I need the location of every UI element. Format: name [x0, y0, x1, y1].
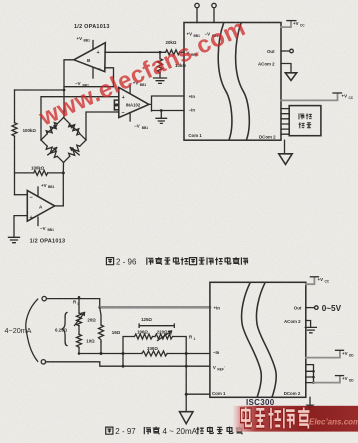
svg-text:100kΩ: 100kΩ	[23, 128, 37, 133]
svg-text:Out: Out	[294, 306, 302, 311]
wire op-amp B + input to 20k	[105, 51, 166, 53]
power +Vcc (top)	[306, 277, 330, 284]
op-amp A +VBB1 supply	[38, 183, 55, 196]
svg-text:+V: +V	[342, 351, 348, 356]
wire op-amp B output to rail	[64, 60, 74, 118]
bridge arm bottom-left	[41, 140, 64, 163]
svg-text:Com 1: Com 1	[188, 133, 202, 138]
wire 20k to VREF pin	[180, 51, 184, 53]
svg-text:6.25Ω: 6.25Ω	[55, 328, 68, 333]
ground (ref wire)	[156, 111, 167, 124]
op-amp B (left-pointing)	[74, 43, 105, 73]
svg-text:4~20mA: 4~20mA	[5, 326, 32, 335]
svg-text:2 - 96: 2 - 96	[116, 258, 137, 267]
resistor 10k (vertical)	[158, 52, 187, 77]
node 125 network right	[185, 352, 188, 355]
svg-text:+V: +V	[342, 94, 348, 99]
power +VDD (lower)	[314, 376, 355, 383]
svg-text:1/2 OPA1013: 1/2 OPA1013	[30, 239, 66, 245]
svg-text:BB1: BB1	[142, 126, 149, 130]
ground DCom 2 (filled)	[309, 397, 311, 404]
resistor 100k (feedback horizontal)	[34, 170, 48, 175]
svg-text:+V: +V	[293, 21, 299, 26]
power +VDD (upper)	[306, 350, 355, 357]
wire op-amp A output	[55, 205, 64, 207]
brace 6.25 ohm	[55, 313, 68, 346]
isolation barrier curve 2	[256, 282, 276, 397]
node 20k/10k junction	[159, 51, 162, 54]
ground (op-amp A +)	[9, 237, 20, 242]
svg-text:ACom 2: ACom 2	[258, 62, 275, 67]
logic control text 控制	[299, 122, 305, 128]
svg-text:100Ω: 100Ω	[137, 330, 148, 335]
node RL top	[98, 306, 101, 309]
svg-text:−V: −V	[134, 124, 140, 129]
terminal -VBB1	[212, 3, 216, 7]
connector pins (right edge)	[306, 365, 315, 384]
svg-text:ISC300: ISC300	[246, 398, 275, 407]
svg-text:+In: +In	[214, 305, 221, 310]
node Com 1	[185, 393, 188, 396]
resistor 330 ohm	[142, 351, 167, 356]
wire INA102 output to +In	[149, 96, 184, 111]
resistor 20 ohm (pot)	[75, 297, 97, 325]
isolation barrier curve 1	[218, 23, 232, 140]
power +Vcc (top right)	[281, 21, 305, 28]
wire top terminal	[46, 299, 99, 306]
ground DCom 2 (open triangle)	[284, 140, 286, 154]
wire op-amp A + input to ground	[14, 216, 27, 237]
svg-text:Elec’ans.com: Elec’ans.com	[309, 418, 358, 427]
resistor 220 ohm (pot)	[155, 330, 173, 341]
ground (10k)	[154, 78, 167, 83]
INA102 -VBB1 supply	[130, 113, 148, 130]
svg-text:DCom 2: DCom 2	[284, 391, 301, 396]
isolation barrier curve 2	[236, 23, 250, 140]
caption figure 2-97	[106, 427, 243, 436]
svg-text:+V: +V	[77, 36, 83, 41]
isolation amplifier IC box	[184, 23, 281, 141]
resistor 100k (left vertical)	[12, 123, 17, 136]
terminal +VBB1	[195, 3, 199, 7]
svg-text:CC: CC	[349, 96, 354, 100]
svg-text:Out: Out	[267, 49, 275, 54]
svg-text:19Ω: 19Ω	[112, 330, 121, 335]
wire thick to +In	[100, 306, 210, 309]
isolation receiver IC box ISC300	[210, 282, 306, 397]
svg-text:+: +	[97, 50, 100, 56]
isolation barrier curve 1	[242, 282, 262, 397]
svg-text:CC: CC	[325, 279, 330, 283]
wire bridge left vertex to INA + input	[41, 97, 119, 140]
wire Com 1	[186, 393, 210, 395]
op-amp B -VBB1 supply	[75, 68, 93, 88]
op-amp A (right-pointing)	[27, 191, 54, 222]
resistor 10 ohm	[77, 326, 96, 354]
dimension 125 ohm	[139, 317, 174, 327]
terminal Out	[281, 50, 289, 52]
svg-text:−V: −V	[40, 226, 46, 231]
power +Vcc (logic)	[281, 93, 354, 100]
logo glyphs 电子发烧友	[242, 407, 310, 428]
wire bridge bottom to feedback line	[62, 163, 64, 173]
CAPTIONS	[106, 257, 248, 436]
svg-text:100kΩ: 100kΩ	[31, 166, 45, 171]
feedback line op-amp A	[15, 173, 64, 206]
svg-text:+V: +V	[318, 277, 324, 282]
wire op-amp B feedback	[64, 68, 114, 87]
caption figure 2-96	[106, 257, 248, 266]
wire bridge right vertex to INA - input	[86, 112, 119, 140]
svg-text:2 - 97: 2 - 97	[115, 427, 136, 436]
INA102 +VBB1 supply	[130, 81, 146, 93]
TOP CIRCUIT	[9, 3, 354, 244]
svg-text:−: −	[122, 111, 125, 117]
svg-text:1: 1	[194, 337, 196, 341]
input terminal bottom	[41, 360, 45, 364]
logo band background	[233, 406, 358, 432]
svg-text:CC: CC	[300, 23, 305, 27]
svg-text:DD: DD	[349, 378, 354, 382]
wire VREF line	[46, 362, 210, 366]
wire INA102 ref to -In	[152, 110, 185, 112]
svg-text:+In: +In	[189, 94, 196, 99]
logic control box	[289, 106, 321, 136]
svg-text:INA102: INA102	[126, 103, 141, 108]
resistor 100 ohm	[135, 334, 153, 339]
svg-text:20Ω: 20Ω	[87, 318, 96, 323]
terminal Out + 0~5V	[306, 307, 314, 309]
wire output node to left rail	[15, 89, 65, 91]
node 125 network left	[122, 352, 125, 355]
svg-text:+V: +V	[342, 376, 348, 381]
svg-text:ACom 2: ACom 2	[284, 319, 301, 324]
svg-text:+: +	[30, 215, 33, 221]
svg-text:REF: REF	[217, 368, 223, 372]
ground ACom 2	[305, 321, 316, 333]
svg-text:BB1: BB1	[48, 228, 55, 232]
svg-text:−In: −In	[189, 108, 196, 113]
svg-text:125Ω: 125Ω	[141, 317, 152, 322]
op-amp A -VBB1 supply	[38, 217, 54, 232]
resistor 19 ohm	[99, 307, 121, 353]
BOTTOM CIRCUIT	[5, 277, 355, 424]
INA102 gain pins	[114, 100, 118, 110]
bridge arm top-left	[41, 118, 64, 141]
svg-text:−V: −V	[75, 81, 81, 86]
svg-text:1/2 OPA1013: 1/2 OPA1013	[74, 24, 110, 30]
instrumentation amp INA102	[119, 87, 149, 117]
wire op-amp A - input	[15, 194, 28, 196]
bridge arm top-right	[64, 118, 87, 141]
svg-text:DCom 2: DCom 2	[259, 134, 276, 139]
input terminal top	[42, 296, 46, 300]
ground (Com 1, open triangle)	[180, 412, 194, 424]
op-amp B +VBB1 supply	[77, 36, 94, 49]
wires IC to logic box	[281, 109, 289, 135]
ground ACom 2 (open triangle)	[281, 64, 291, 73]
wire -In line	[79, 353, 210, 355]
svg-text:−In: −In	[213, 350, 220, 355]
bridge arm bottom-right	[64, 140, 87, 163]
junction network to VREF	[122, 354, 124, 367]
wire network right to ground rail	[185, 354, 187, 412]
svg-text:V: V	[213, 365, 216, 370]
svg-text:4 ~ 20mA: 4 ~ 20mA	[163, 427, 198, 436]
svg-text:10Ω: 10Ω	[86, 338, 95, 343]
svg-text:330Ω: 330Ω	[147, 346, 158, 351]
svg-text:Com 1: Com 1	[212, 391, 226, 396]
svg-text:220Ω: 220Ω	[157, 330, 168, 335]
svg-text:BB1: BB1	[84, 38, 91, 42]
wire left rail	[14, 90, 16, 195]
svg-text:+V: +V	[41, 183, 47, 188]
node op-amp B output	[63, 89, 66, 92]
svg-text:0~5V: 0~5V	[322, 304, 342, 313]
resistor 20k	[166, 50, 180, 55]
wire 125 network branch	[123, 337, 186, 354]
logic control text 逻辑	[299, 113, 304, 119]
current source arc	[26, 299, 38, 361]
svg-text:DD: DD	[349, 353, 354, 357]
bridge (sensor bridge)	[41, 118, 86, 163]
svg-text:BB1: BB1	[48, 185, 55, 189]
